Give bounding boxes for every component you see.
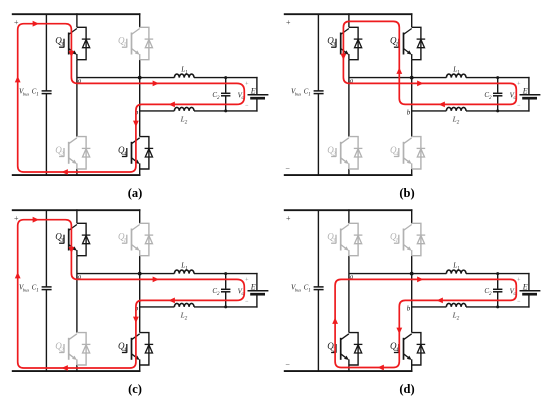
- svg-text:4: 4: [123, 150, 126, 157]
- svg-text:1: 1: [123, 238, 126, 244]
- svg-text:E: E: [522, 282, 528, 291]
- svg-text:3: 3: [60, 42, 64, 48]
- svg-text:3: 3: [332, 238, 336, 244]
- svg-text:E: E: [522, 86, 528, 95]
- svg-text:(d): (d): [399, 382, 414, 396]
- svg-text:1: 1: [123, 42, 126, 48]
- svg-text:2: 2: [333, 151, 336, 157]
- svg-text:1: 1: [185, 266, 188, 271]
- svg-text:bus: bus: [23, 288, 30, 293]
- svg-text:1: 1: [308, 93, 311, 98]
- svg-text:3: 3: [332, 42, 336, 48]
- svg-text:bus: bus: [295, 92, 302, 97]
- svg-text:1: 1: [457, 266, 460, 271]
- svg-text:1: 1: [308, 289, 311, 294]
- svg-text:(c): (c): [128, 382, 142, 396]
- svg-text:4: 4: [395, 346, 398, 353]
- svg-text:2: 2: [61, 347, 64, 353]
- svg-text:−: −: [285, 360, 290, 369]
- svg-text:E: E: [250, 282, 256, 291]
- svg-text:b: b: [407, 109, 411, 117]
- svg-text:(b): (b): [399, 186, 414, 200]
- svg-text:1: 1: [36, 289, 39, 294]
- svg-text:1: 1: [457, 70, 460, 75]
- svg-text:b: b: [407, 305, 411, 313]
- svg-text:2: 2: [61, 151, 64, 157]
- svg-text:bus: bus: [23, 92, 30, 97]
- svg-text:1: 1: [185, 70, 188, 75]
- svg-text:−: −: [285, 164, 290, 173]
- svg-text:3: 3: [60, 238, 64, 244]
- svg-text:4: 4: [395, 150, 398, 157]
- svg-text:+: +: [286, 18, 291, 27]
- svg-text:E: E: [250, 86, 256, 95]
- svg-text:1: 1: [395, 42, 398, 48]
- svg-text:(a): (a): [128, 186, 143, 200]
- svg-text:1: 1: [395, 238, 398, 244]
- svg-text:4: 4: [123, 346, 126, 353]
- svg-text:1: 1: [36, 93, 39, 98]
- svg-text:+: +: [286, 214, 291, 223]
- svg-text:bus: bus: [295, 288, 302, 293]
